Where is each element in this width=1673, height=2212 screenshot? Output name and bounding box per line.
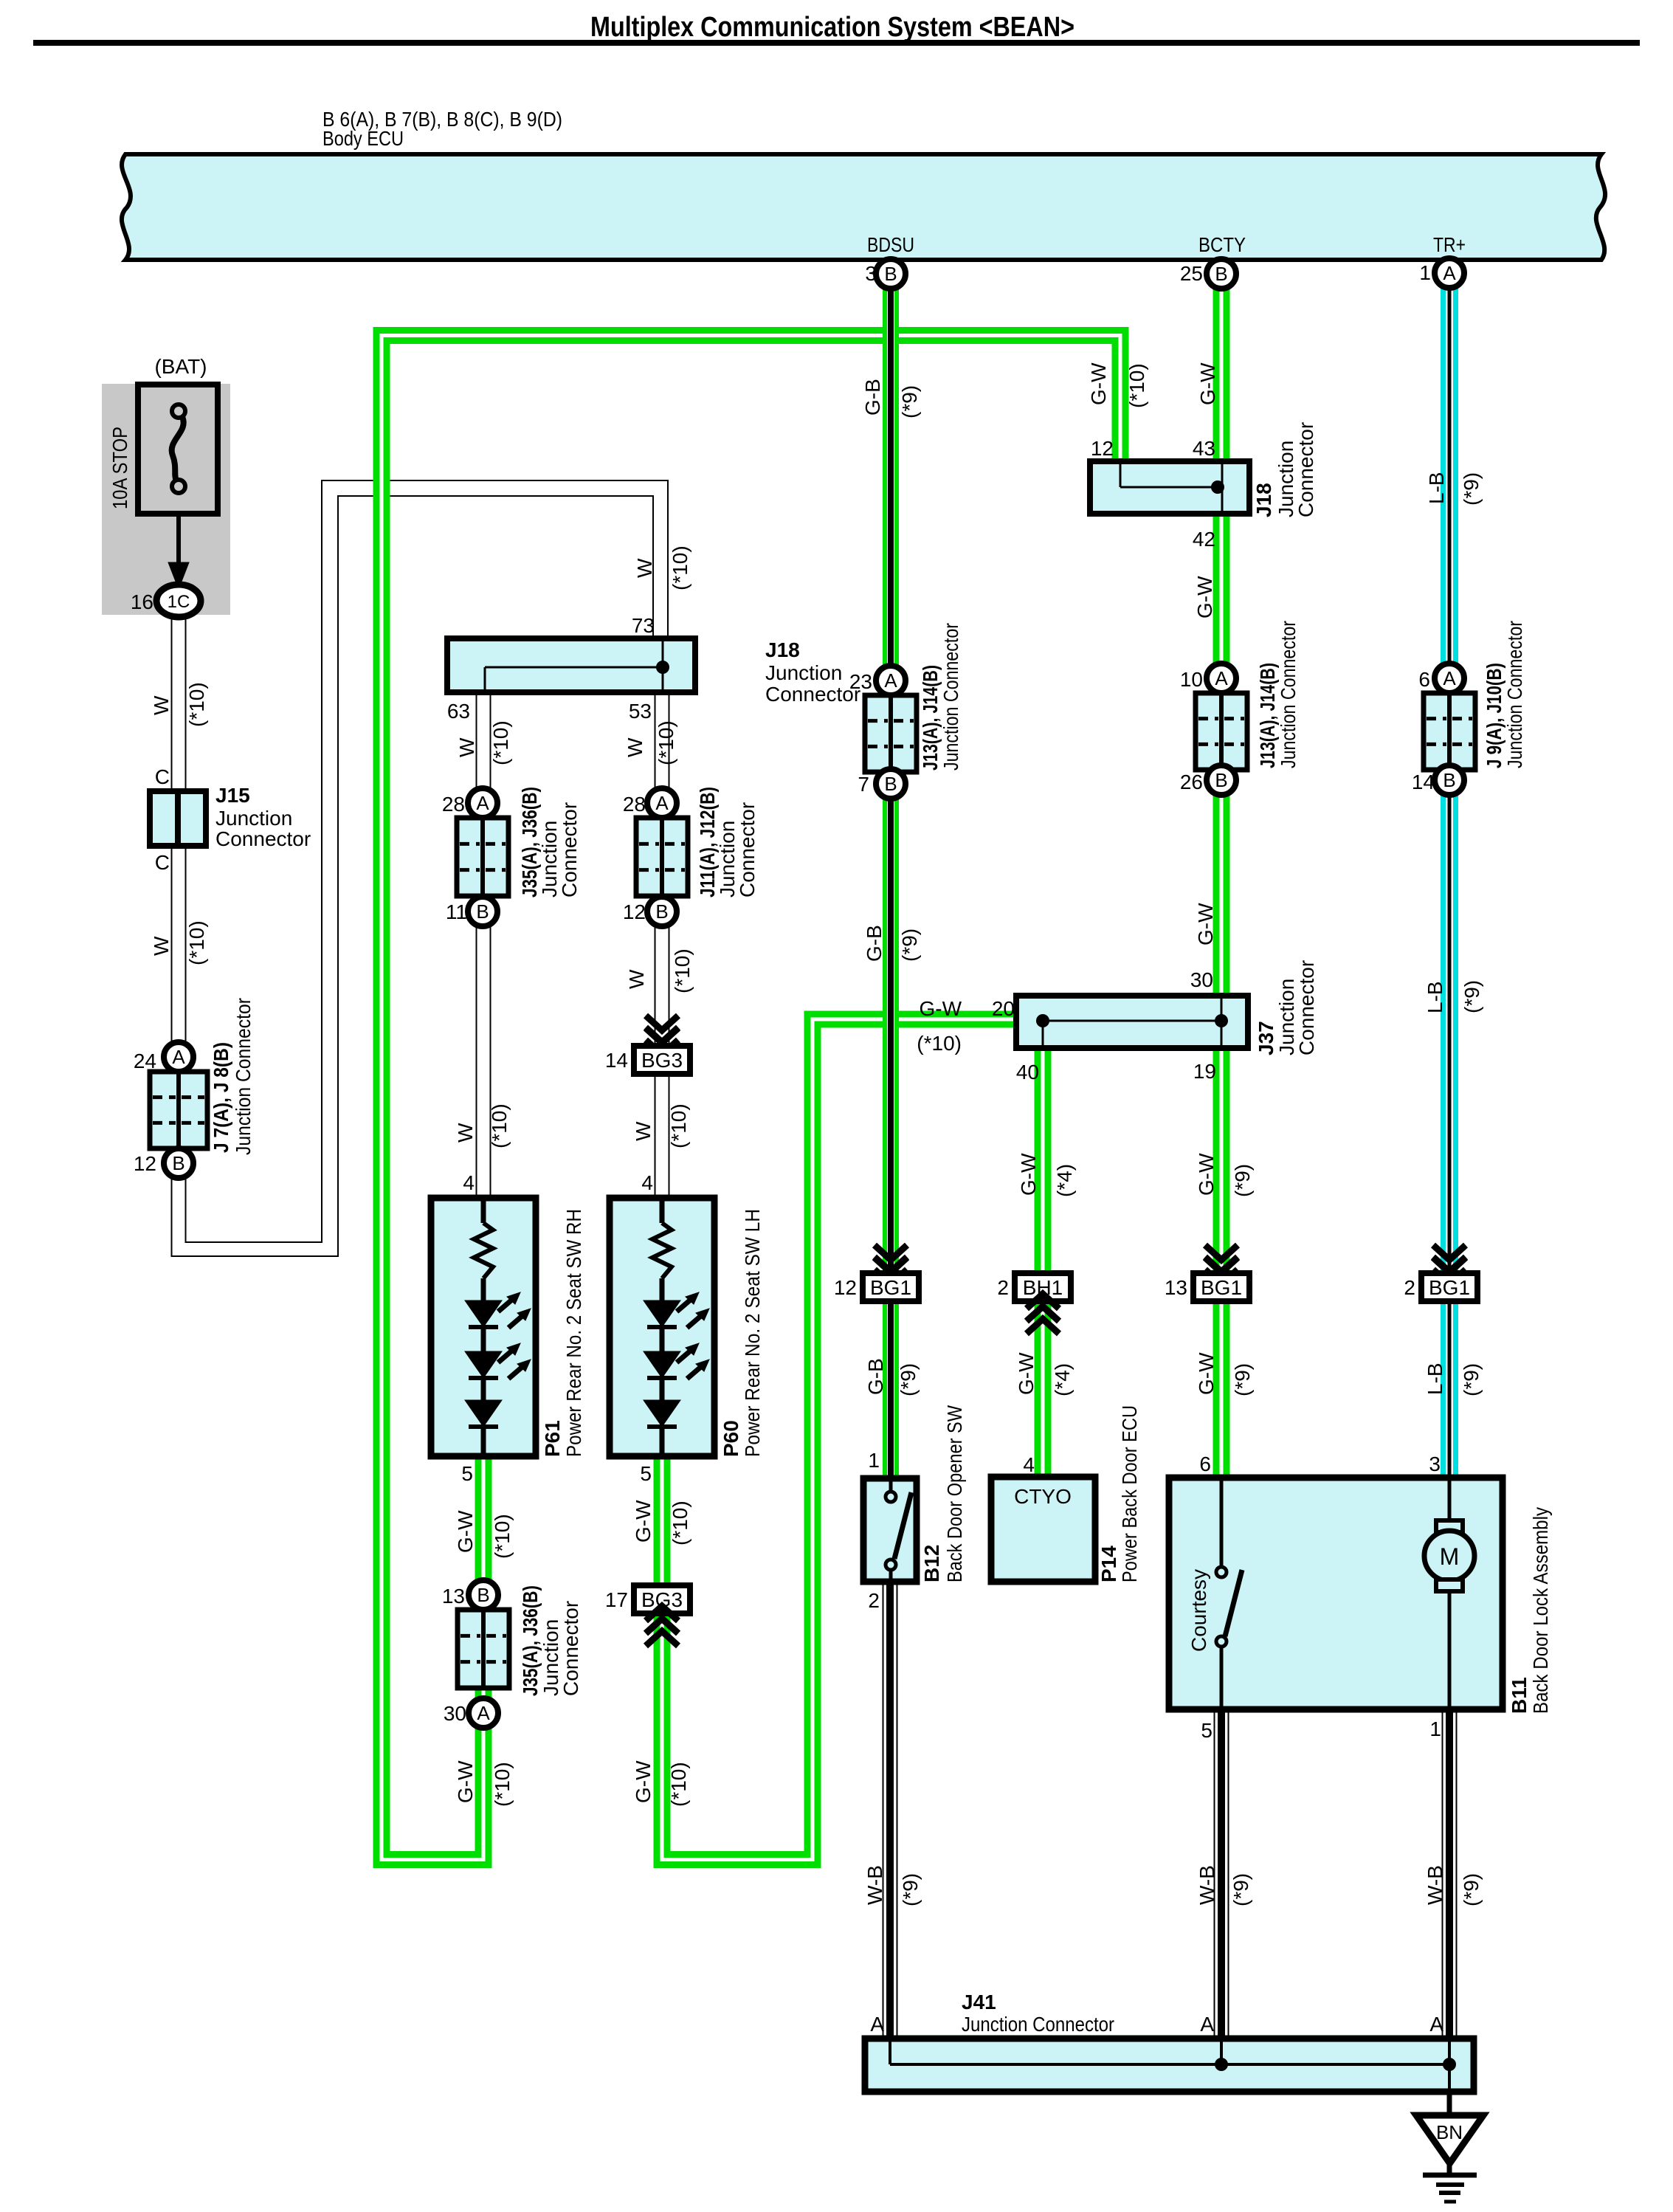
svg-text:Connector: Connector — [558, 802, 581, 897]
svg-text:J15: J15 — [215, 784, 250, 807]
svg-text:G-W: G-W — [1193, 576, 1216, 619]
svg-text:A: A — [1429, 2013, 1443, 2036]
svg-text:BG1: BG1 — [870, 1276, 911, 1299]
svg-text:Power Rear No. 2 Seat SW RH: Power Rear No. 2 Seat SW RH — [562, 1209, 585, 1457]
junction connector J18 (right) — [1090, 461, 1249, 514]
svg-text:(*10): (*10) — [488, 1103, 511, 1148]
svg-text:(*9): (*9) — [1229, 1873, 1252, 1906]
svg-text:14: 14 — [1412, 771, 1435, 793]
svg-text:B: B — [172, 1152, 184, 1174]
svg-text:BDSU: BDSU — [867, 233, 914, 256]
svg-text:W-B: W-B — [1424, 1865, 1446, 1905]
svg-text:53: 53 — [629, 700, 652, 723]
junction connector J9(A) J10(B) — [1435, 664, 1464, 693]
svg-text:W: W — [625, 969, 648, 989]
svg-text:G-W: G-W — [454, 1510, 477, 1553]
wire: W-B (*9) B11 pin1 to J41 — [1442, 1709, 1443, 2039]
svg-text:(*10): (*10) — [917, 1032, 962, 1055]
wire: G-W (*4) J37 pin40 to BH1 2 — [1035, 1045, 1052, 1275]
svg-text:Back Door Opener SW: Back Door Opener SW — [943, 1405, 966, 1582]
junction connector J15 — [150, 791, 206, 846]
svg-text:Connector: Connector — [1294, 422, 1317, 517]
svg-text:(*10): (*10) — [667, 1103, 690, 1148]
svg-text:Connector: Connector — [215, 827, 311, 850]
svg-text:12: 12 — [834, 1276, 857, 1299]
pin 1 A of Body ECU (TR+) — [1435, 258, 1464, 288]
svg-text:A: A — [1443, 667, 1456, 689]
svg-text:14: 14 — [605, 1049, 628, 1072]
svg-text:BG1: BG1 — [1429, 1276, 1470, 1299]
svg-text:Junction: Junction — [215, 807, 292, 830]
wire: G-W (*10) P60 pin5 to BG3 17 — [654, 1455, 671, 1588]
svg-text:Junction Connector: Junction Connector — [232, 998, 255, 1155]
svg-text:(BAT): (BAT) — [154, 355, 207, 378]
svg-text:1: 1 — [868, 1449, 880, 1472]
svg-text:Connector: Connector — [736, 802, 759, 897]
fuse 10A STOP (BAT) — [102, 384, 230, 615]
junction connector J13(A) J14(B) right — [1207, 664, 1236, 693]
svg-text:Junction Connector: Junction Connector — [1503, 621, 1526, 768]
svg-text:G-W: G-W — [632, 1500, 655, 1543]
svg-text:BCTY: BCTY — [1198, 233, 1246, 256]
junction connector J35(A) J36(B) upper — [468, 788, 497, 818]
svg-text:63: 63 — [447, 700, 470, 723]
svg-text:A: A — [655, 792, 669, 814]
svg-text:(*9): (*9) — [1460, 472, 1483, 506]
svg-text:30: 30 — [444, 1702, 466, 1725]
svg-text:Body ECU: Body ECU — [322, 127, 404, 150]
svg-text:(*10): (*10) — [667, 1762, 690, 1807]
svg-text:42: 42 — [1193, 528, 1215, 551]
junction connector J35(A) J36(B) lower — [469, 1580, 498, 1610]
svg-text:(*4): (*4) — [1051, 1363, 1074, 1396]
svg-text:J18: J18 — [1252, 483, 1275, 517]
svg-text:W-B: W-B — [1196, 1865, 1218, 1905]
courtesy switch inside B11 — [1220, 1478, 1224, 1567]
svg-text:Connector: Connector — [1295, 960, 1318, 1055]
ground BN — [1416, 2115, 1483, 2163]
svg-text:B: B — [1215, 769, 1227, 791]
svg-text:10: 10 — [1180, 668, 1203, 691]
svg-text:G-W: G-W — [1017, 1153, 1040, 1196]
svg-text:L-B: L-B — [1424, 1362, 1446, 1395]
svg-text:P14: P14 — [1097, 1546, 1120, 1582]
svg-text:A: A — [884, 669, 897, 692]
svg-text:1: 1 — [1419, 261, 1431, 284]
arrow from fuse to pin 16 1C — [176, 514, 181, 565]
svg-text:Connector: Connector — [559, 1601, 582, 1696]
svg-text:C: C — [155, 851, 170, 874]
svg-text:B: B — [1215, 263, 1227, 285]
wire: G-W BCTY pin25B down to J37 pin30 — [1213, 280, 1230, 999]
svg-text:4: 4 — [641, 1171, 653, 1194]
connector BG1 13 with arrows — [1205, 1245, 1238, 1260]
svg-text:1: 1 — [1429, 1717, 1441, 1740]
svg-text:G-B: G-B — [861, 379, 884, 416]
svg-text:BG1: BG1 — [1201, 1276, 1242, 1299]
ground wire J41 to BN — [1447, 2092, 1452, 2117]
svg-text:17: 17 — [605, 1588, 628, 1611]
svg-text:A: A — [172, 1046, 185, 1068]
wire: W-B (*9) B11 pin5 to J41 — [1214, 1709, 1215, 2039]
svg-text:BG3: BG3 — [641, 1049, 683, 1072]
svg-text:J 9(A), J10(B): J 9(A), J10(B) — [1483, 663, 1505, 768]
svg-text:3: 3 — [865, 262, 877, 285]
wire: G-W (*9) BG1 13 to B11 pin6 — [1213, 1297, 1230, 1478]
svg-text:(*9): (*9) — [899, 1873, 922, 1906]
svg-text:4: 4 — [1023, 1453, 1035, 1476]
svg-text:P60: P60 — [720, 1420, 742, 1457]
svg-text:(*10): (*10) — [669, 545, 691, 590]
svg-text:(*10): (*10) — [185, 920, 208, 965]
svg-text:(*9): (*9) — [897, 1363, 920, 1396]
connector BG3 14 with arrows — [646, 1016, 678, 1030]
svg-text:(*10): (*10) — [655, 720, 677, 765]
svg-text:13: 13 — [442, 1585, 465, 1608]
svg-text:G-W: G-W — [454, 1760, 477, 1803]
svg-text:7: 7 — [858, 773, 869, 796]
svg-text:(*9): (*9) — [1460, 1873, 1483, 1906]
svg-text:G-W: G-W — [1015, 1352, 1038, 1395]
svg-text:BN: BN — [1436, 2121, 1463, 2143]
svg-text:Junction Connector: Junction Connector — [962, 2013, 1114, 2036]
svg-text:W: W — [150, 695, 173, 715]
pin 3 B of Body ECU (BDSU) — [876, 259, 906, 289]
svg-text:(*10): (*10) — [1125, 363, 1148, 408]
svg-text:M: M — [1440, 1543, 1460, 1570]
svg-text:W: W — [150, 936, 173, 956]
svg-text:A: A — [1443, 262, 1456, 284]
svg-text:73: 73 — [632, 614, 655, 637]
svg-text:12: 12 — [623, 900, 646, 923]
junction connector J37 — [1016, 996, 1248, 1048]
svg-text:4: 4 — [463, 1171, 475, 1194]
svg-text:(*9): (*9) — [1231, 1363, 1254, 1396]
svg-text:(*10): (*10) — [671, 948, 694, 993]
svg-text:10A STOP: 10A STOP — [108, 427, 131, 509]
svg-text:5: 5 — [1201, 1719, 1213, 1742]
wire: G-W (*10) loop BG3 17 - bottom - J37 pin 20 — [662, 1019, 1019, 1860]
svg-text:40: 40 — [1016, 1061, 1039, 1083]
svg-text:Power Rear No. 2 Seat SW LH: Power Rear No. 2 Seat SW LH — [741, 1209, 764, 1457]
svg-text:(*9): (*9) — [898, 385, 921, 418]
svg-text:G-B: G-B — [863, 925, 886, 962]
svg-text:G-W: G-W — [632, 1760, 655, 1803]
svg-text:2: 2 — [997, 1276, 1009, 1299]
svg-text:5: 5 — [640, 1462, 652, 1485]
svg-text:G-B: G-B — [864, 1358, 887, 1395]
junction connector J18 (middle) — [447, 638, 695, 692]
svg-text:28: 28 — [623, 793, 646, 816]
svg-text:J13(A), J14(B): J13(A), J14(B) — [919, 665, 942, 771]
svg-text:16: 16 — [131, 590, 153, 613]
svg-text:G-W: G-W — [1196, 362, 1219, 405]
svg-text:Junction Connector: Junction Connector — [1277, 621, 1300, 768]
svg-text:B: B — [1443, 769, 1455, 791]
svg-text:J13(A), J14(B): J13(A), J14(B) — [1256, 663, 1279, 768]
wire: G-B (*9) BDSU pin3B down to B12 pin1 — [883, 280, 899, 1478]
svg-text:13: 13 — [1165, 1276, 1187, 1299]
svg-text:G-W: G-W — [1194, 903, 1217, 945]
svg-text:26: 26 — [1180, 771, 1203, 793]
svg-text:B: B — [655, 900, 668, 923]
svg-text:25: 25 — [1180, 262, 1203, 285]
switch P61 Power Rear No. 2 Seat SW RH — [431, 1198, 536, 1456]
junction connector J13(A) J14(B) left — [876, 666, 906, 695]
svg-text:30: 30 — [1190, 968, 1213, 991]
svg-text:Power Back Door ECU: Power Back Door ECU — [1118, 1405, 1141, 1582]
svg-text:24: 24 — [134, 1050, 156, 1072]
svg-text:G-W: G-W — [1195, 1352, 1218, 1395]
svg-text:6: 6 — [1418, 668, 1430, 691]
svg-text:Connector: Connector — [765, 683, 860, 706]
svg-text:B: B — [884, 263, 897, 285]
svg-text:A: A — [1200, 2013, 1214, 2036]
svg-text:(*10): (*10) — [491, 1762, 514, 1807]
Body ECU block B6(A) B7(B) B8(C) B9(D) — [122, 154, 1605, 260]
svg-text:23: 23 — [849, 670, 872, 693]
svg-text:L-B: L-B — [1425, 472, 1448, 504]
svg-text:Back Door Lock Assembly: Back Door Lock Assembly — [1529, 1507, 1552, 1714]
svg-text:B11: B11 — [1508, 1677, 1531, 1714]
svg-text:3: 3 — [1429, 1453, 1441, 1475]
svg-text:12: 12 — [1091, 437, 1114, 460]
svg-text:12: 12 — [134, 1152, 156, 1175]
svg-text:W: W — [632, 1121, 655, 1141]
svg-text:W: W — [454, 1123, 477, 1143]
svg-text:19: 19 — [1193, 1060, 1216, 1083]
pin 16 1C oval — [156, 585, 201, 617]
svg-text:11: 11 — [446, 900, 467, 923]
svg-text:G-W: G-W — [919, 997, 962, 1020]
svg-text:G-W: G-W — [1195, 1153, 1218, 1196]
wire: G-W (*10) loop J18 pin12 - left side - bottom - J35/J36 pin30 — [382, 336, 1120, 1860]
svg-text:43: 43 — [1193, 437, 1215, 460]
svg-text:2: 2 — [1404, 1276, 1415, 1299]
svg-text:J 7(A), J 8(B): J 7(A), J 8(B) — [210, 1042, 232, 1153]
svg-text:Courtesy: Courtesy — [1187, 1569, 1210, 1652]
svg-text:P61: P61 — [541, 1420, 564, 1457]
wire: W-B (*9) B12 pin2 down to J41 — [883, 1582, 884, 2039]
switch P60 Power Rear No. 2 Seat SW LH — [610, 1198, 714, 1456]
svg-text:6: 6 — [1199, 1453, 1211, 1475]
svg-text:B: B — [477, 1584, 489, 1606]
svg-text:W: W — [633, 558, 656, 578]
svg-text:(*9): (*9) — [1231, 1164, 1254, 1197]
svg-text:A: A — [1215, 667, 1228, 689]
svg-text:L-B: L-B — [1424, 981, 1446, 1013]
motor M inside B11 — [1448, 1478, 1452, 1520]
svg-text:B: B — [476, 900, 489, 923]
svg-text:A: A — [870, 2013, 884, 2036]
svg-text:(*10): (*10) — [185, 682, 208, 727]
svg-text:2: 2 — [868, 1589, 880, 1612]
svg-text:C: C — [155, 765, 170, 788]
connector BG1 2 with arrows — [1433, 1245, 1466, 1260]
svg-text:A: A — [477, 1702, 490, 1724]
wire: W from J18 pin63 to P61 pin4 — [476, 692, 477, 1198]
pin 25 B of Body ECU (BCTY) — [1207, 259, 1236, 289]
wire: W from J18 pin53 through BG3 14 to P60 pin4 — [655, 692, 656, 1198]
svg-text:TR+: TR+ — [1433, 233, 1466, 256]
svg-text:G-W: G-W — [1087, 362, 1110, 405]
wire: L-B (*9) TR+ pin1A down to B11 pin3 — [1441, 280, 1458, 1478]
svg-text:Junction: Junction — [765, 661, 842, 684]
svg-text:(*10): (*10) — [489, 720, 512, 765]
svg-text:(*4): (*4) — [1053, 1164, 1076, 1197]
svg-text:28: 28 — [442, 793, 465, 816]
svg-text:CTYO: CTYO — [1014, 1485, 1072, 1508]
svg-text:20: 20 — [992, 997, 1015, 1020]
svg-text:B12: B12 — [920, 1545, 943, 1582]
wire: W loop from fuse 1C through J15, J7/J8 to J18 pin 73 — [172, 496, 654, 1256]
svg-text:(*10): (*10) — [491, 1514, 514, 1559]
connector BH1 2 — [1015, 1273, 1071, 1301]
svg-text:W: W — [624, 737, 646, 757]
svg-text:Junction Connector: Junction Connector — [939, 623, 962, 771]
svg-text:(*9): (*9) — [1460, 980, 1483, 1013]
svg-text:Multiplex Communication System: Multiplex Communication System <BEAN> — [590, 12, 1074, 43]
connector BG3 17 with arrows — [634, 1585, 690, 1613]
junction connector J11(A) J12(B) — [647, 788, 677, 818]
connector BG1 12 with arrows — [875, 1245, 907, 1260]
svg-text:A: A — [476, 792, 489, 814]
svg-text:W-B: W-B — [863, 1865, 886, 1905]
svg-text:(*10): (*10) — [669, 1500, 691, 1546]
svg-text:(*9): (*9) — [1460, 1363, 1483, 1396]
wire: G-W (*4) BH1 2 to P14 pin4 — [1035, 1297, 1052, 1477]
svg-text:(*9): (*9) — [898, 928, 921, 962]
wire: G-W (*9) J37 pin19 to BG1 13 — [1213, 1045, 1230, 1275]
svg-text:5: 5 — [461, 1462, 473, 1485]
svg-text:W: W — [455, 737, 478, 757]
svg-text:J18: J18 — [765, 638, 800, 661]
junction connector J7(A) J8(B) — [164, 1042, 193, 1072]
svg-text:J35(A), J36(B): J35(A), J36(B) — [519, 1585, 542, 1696]
svg-text:B: B — [884, 773, 897, 795]
svg-text:J41: J41 — [962, 1991, 996, 2013]
svg-text:J37: J37 — [1255, 1021, 1277, 1055]
svg-text:1C: 1C — [168, 592, 190, 612]
